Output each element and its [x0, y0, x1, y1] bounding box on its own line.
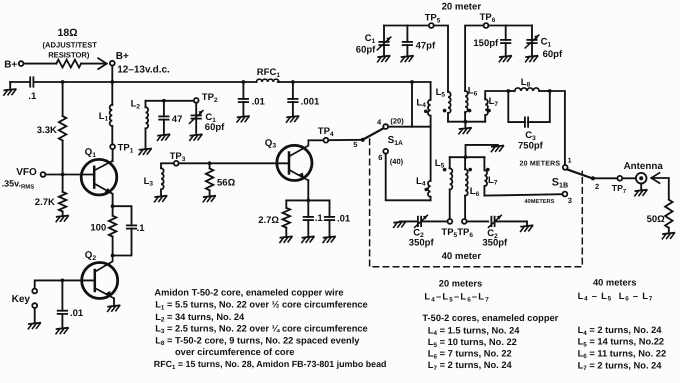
svg-text:150pf: 150pf	[473, 38, 499, 49]
note 40m L6	[578, 348, 667, 360]
note L8 winding	[155, 335, 360, 347]
svg-text:.1: .1	[28, 91, 37, 102]
terminal S1B pin 3	[563, 192, 572, 205]
svg-text:RESISTOR): RESISTOR)	[48, 50, 90, 59]
svg-text:1: 1	[568, 157, 572, 164]
terminal S1A pin 6	[378, 149, 403, 166]
ground under 56Ω	[203, 196, 215, 202]
wire TP3 to Q3 base	[179, 162, 289, 164]
test point TP7	[612, 176, 627, 195]
resistor 2.7K	[35, 175, 67, 216]
wire bus down to pin-4 line	[411, 82, 413, 127]
junction bus / 3.3K	[61, 80, 65, 84]
terminal S1A pin 4	[377, 116, 404, 129]
ground under C1 (20m left)	[378, 56, 390, 62]
wire L2 tank top rail	[146, 100, 194, 102]
ground under 2.7K	[56, 216, 68, 222]
ground under .001 bypass	[287, 116, 299, 122]
svg-text:40 meters: 40 meters	[593, 278, 636, 288]
transistor Q1	[81, 147, 117, 195]
note 40m L4	[578, 325, 663, 337]
note T-50-2 cores line	[422, 313, 558, 323]
svg-text:100: 100	[90, 223, 106, 234]
junction emitter network bottom	[111, 254, 115, 258]
wire TP3 to L3 corner	[161, 163, 174, 168]
svg-text:60pf: 60pf	[543, 49, 563, 60]
note L3 winding	[155, 323, 368, 335]
svg-text:40 meter: 40 meter	[442, 251, 482, 262]
transistor Q3	[265, 138, 312, 181]
svg-text:47pf: 47pf	[416, 40, 436, 51]
svg-text:3.3K: 3.3K	[37, 125, 57, 136]
ground under L2	[139, 149, 151, 155]
capacitor .001 bus bypass	[288, 82, 320, 116]
label Antenna	[624, 161, 664, 172]
terminal Key lower	[32, 303, 37, 323]
note L8 winding cont.	[175, 347, 294, 357]
inductor L5 (40m)	[435, 157, 453, 219]
svg-text:60pf: 60pf	[205, 122, 225, 133]
inductor L6 (20m)	[465, 86, 478, 122]
ground 40m top	[491, 146, 503, 152]
ground under 2.7Ω	[280, 237, 292, 243]
test point TP2	[194, 92, 218, 104]
svg-text:20 meters: 20 meters	[439, 278, 482, 288]
capacitor .1 (Q3 emitter)	[304, 200, 324, 236]
wire Q1 collector to TP1	[112, 149, 114, 161]
svg-text:VFO: VFO	[16, 167, 37, 178]
inductor L4 (40 m link)	[416, 176, 431, 201]
variable capacitor C2 350pf (left)	[400, 215, 448, 248]
svg-text:40METERS: 40METERS	[524, 199, 554, 205]
wire supply bus .1 cap to RFC1	[35, 81, 257, 83]
svg-text:T-50-2 cores, enameled copper: T-50-2 cores, enameled copper	[422, 313, 558, 323]
inductor L3	[144, 168, 164, 196]
test point TP6 (40m)	[457, 219, 473, 239]
terminal VFO input	[2, 167, 46, 190]
ground Q2 emitter	[108, 305, 120, 311]
svg-text:350pf: 350pf	[482, 238, 508, 249]
test point TP5 (40m)	[441, 219, 457, 239]
switch S1B arm	[567, 169, 591, 178]
ground under C1 wavemeter	[190, 134, 202, 140]
label 40 meter	[442, 251, 482, 262]
wire Q2 emitter to ground	[113, 298, 115, 305]
svg-text:(ADJUST/TEST: (ADJUST/TEST	[43, 41, 98, 50]
capacitor .1 parallel (Q1 emitter)	[113, 206, 146, 255]
wire TP5 rail (20m)	[384, 26, 448, 92]
wire S1A pin 6 to 40m L4	[386, 154, 431, 201]
wire 40m output to pin 3	[485, 194, 563, 195]
junction 47pf tank	[162, 99, 166, 103]
svg-text:B+: B+	[116, 51, 129, 62]
svg-text:2.7K: 2.7K	[35, 197, 55, 208]
inductor L7 (20m)	[485, 91, 508, 122]
svg-text:20 meter: 20 meter	[442, 2, 482, 13]
label S1B	[552, 177, 568, 190]
svg-text:47: 47	[172, 114, 183, 125]
wire Q3 emitter down	[307, 180, 309, 200]
svg-text:.01: .01	[252, 96, 266, 107]
test point TP1	[110, 143, 134, 155]
svg-text:Antenna: Antenna	[624, 161, 664, 172]
svg-text:12–13v.d.c.: 12–13v.d.c.	[117, 64, 170, 75]
junction S1A pole (5)	[353, 138, 365, 149]
wire supply bus RFC1 to 20m L4	[278, 81, 431, 83]
junction S1B pole (2)	[591, 176, 599, 191]
test point TP6 (20m)	[480, 12, 496, 28]
inductor RFC1	[257, 67, 281, 82]
junction bus / .001 bypass	[291, 80, 295, 84]
svg-text:.1: .1	[137, 223, 146, 234]
svg-text:56Ω: 56Ω	[217, 178, 236, 189]
svg-text:2.7Ω: 2.7Ω	[258, 215, 279, 226]
capacitor C3 750pf	[508, 91, 550, 152]
ground at bus left end	[4, 82, 16, 95]
svg-text:750pf: 750pf	[518, 141, 544, 152]
svg-text:(20): (20)	[390, 116, 404, 125]
svg-text:18Ω: 18Ω	[58, 27, 78, 39]
junction bus / pin-4 drop	[410, 80, 414, 84]
capacitor .1 series in B+ bus	[28, 77, 37, 102]
svg-text:2: 2	[595, 182, 599, 191]
label 40METERS	[524, 199, 554, 205]
junction L8 left	[506, 89, 510, 93]
switch S1A arm	[364, 128, 403, 147]
inductor L2	[131, 99, 149, 149]
wire B+ node down to supply bus	[111, 66, 113, 82]
junction Q3 emitter network	[306, 199, 310, 203]
junction bus / .01 bypass	[242, 80, 246, 84]
wire VFO to Q1 base	[45, 174, 94, 176]
note 20m coil set	[424, 292, 490, 304]
wire resistor to B+ node with arrowhead	[81, 58, 107, 69]
junction 56-ohm	[208, 161, 212, 165]
resistor 56Ω	[206, 163, 236, 195]
resistor 3.3K	[37, 82, 67, 175]
junction transformer ground (20m)	[459, 120, 471, 134]
svg-text:.1: .1	[315, 213, 324, 224]
capacitor 47pf (20m)	[403, 26, 436, 56]
note RFC1 winding	[154, 359, 387, 371]
svg-text:3: 3	[568, 196, 572, 205]
capacitor .01 (Q3 emitter)	[325, 200, 351, 236]
wire B+ input to 18-ohm resistor	[24, 63, 57, 65]
svg-text:Key: Key	[12, 294, 31, 305]
svg-text:Amidon T-50-2 core, enameled c: Amidon T-50-2 core, enameled copper wire	[154, 287, 343, 297]
svg-text:.01: .01	[337, 213, 351, 224]
note 20m L6	[428, 349, 512, 361]
svg-text:350pf: 350pf	[409, 238, 435, 249]
wire Q3 emitter network rail	[286, 199, 329, 201]
variable capacitor C1 60pf (20m right)	[525, 26, 563, 60]
inductor L6 (40m)	[465, 157, 480, 219]
note 20m L7	[428, 360, 513, 372]
transistor Q2	[82, 250, 118, 299]
terminal B+ 12-13 v.d.c. node	[110, 51, 170, 75]
wire pin-4 line down to 40m L4	[430, 127, 432, 181]
antenna feed arrow	[651, 173, 669, 200]
inductor L8	[508, 77, 550, 91]
ground antenna jack	[635, 190, 647, 196]
wire Key node to Q2 base	[35, 280, 95, 288]
ground under Key	[28, 323, 40, 329]
junction L8 right	[548, 89, 552, 93]
note 40m L5	[578, 337, 664, 349]
ground 40m bottom left	[394, 221, 406, 227]
terminal Key upper	[32, 289, 37, 294]
test point TP3	[170, 151, 186, 166]
note L1 winding	[155, 300, 368, 312]
variable capacitor C2 350pf (right)	[467, 215, 527, 248]
svg-text:20 METERS: 20 METERS	[520, 160, 561, 167]
inductor L5 (20m)	[436, 87, 451, 122]
ground 40m bottom right	[521, 221, 533, 231]
wire bus left stub	[10, 81, 29, 83]
note 40m L7	[578, 360, 663, 372]
wire transformer bottom rail (20m)	[448, 121, 485, 123]
inductor L1	[99, 82, 113, 144]
ground under L3	[155, 196, 167, 202]
terminal S1B pin 1	[563, 157, 572, 169]
svg-text:over circumference of core: over circumference of core	[175, 347, 294, 357]
wire 40m rail to top ground	[466, 145, 498, 157]
svg-text:.01: .01	[70, 308, 84, 319]
ground under key .01	[56, 328, 68, 334]
dashed enclosure 40 meter section	[370, 139, 583, 267]
ground under C1 (20m right)	[526, 56, 538, 62]
svg-text:5: 5	[353, 140, 357, 149]
resistor 100 (Q1 emitter)	[90, 206, 116, 255]
wire S1A pin 4 line	[388, 126, 431, 128]
note 20m L5	[428, 337, 517, 349]
ground under 50Ω	[662, 233, 674, 239]
inductor L4 (20 m link)	[416, 82, 430, 127]
test point TP4	[318, 126, 334, 142]
test point TP5 (20m)	[425, 13, 441, 28]
variable capacitor C1 60pf (20m left)	[356, 26, 391, 56]
wire L8 to S1B pin 1	[550, 91, 565, 165]
junction VFO / divider	[61, 173, 65, 177]
svg-text:60pf: 60pf	[356, 45, 376, 56]
svg-text:B+: B+	[4, 59, 17, 70]
wire Q3 collector to TP4	[308, 139, 323, 141]
terminal B+ input	[4, 59, 23, 70]
antenna jack	[636, 173, 647, 190]
label 20 METERS	[520, 160, 561, 167]
ground under .1 (Q3)	[302, 237, 314, 243]
note 20 meters heading	[439, 278, 482, 288]
note 20m L4	[428, 325, 520, 337]
variable capacitor C1 60pf (wavemeter)	[189, 103, 225, 135]
capacitor 150pf (20m)	[473, 26, 510, 56]
wire Q1 emitter down	[112, 194, 114, 206]
svg-text:50Ω: 50Ω	[647, 214, 666, 225]
capacitor .01 (key filter)	[58, 280, 84, 327]
junction 40m ground rail	[464, 155, 468, 159]
resistor 50Ω	[647, 200, 673, 233]
ground under .01 (Q3)	[323, 237, 335, 243]
ground under 47pf	[401, 56, 413, 62]
wire 40m ground rail	[450, 156, 485, 158]
note 40m coil set	[578, 291, 653, 303]
label Key	[12, 294, 31, 305]
label 20 meter	[442, 2, 482, 13]
wire S1B pole to antenna	[593, 177, 636, 179]
ground under .01 bypass	[237, 116, 249, 122]
resistor 2.7Ω (Q3 emitter)	[258, 200, 290, 236]
junction emitter network top	[111, 204, 115, 208]
resistor R1 18Ω (adjust/test)	[43, 27, 98, 68]
svg-text:6: 6	[378, 153, 382, 162]
junction bus / B+ node	[110, 80, 114, 84]
wire TP4 to S1A pole	[328, 139, 362, 141]
junction key / .01	[61, 279, 65, 283]
svg-text:(40): (40)	[390, 157, 404, 166]
note 40 meters heading	[593, 278, 636, 288]
inductor L7 (40m)	[484, 157, 497, 195]
svg-text:.001: .001	[301, 96, 320, 107]
note L2 winding	[155, 312, 245, 324]
ground under 47	[158, 134, 170, 140]
note Amidon core line	[154, 287, 343, 297]
capacitor 47 (tank)	[159, 101, 182, 135]
ground under 150pf	[499, 56, 511, 62]
capacitor .01 bus bypass	[239, 82, 266, 116]
wire TP6 rail (20m)	[465, 26, 532, 92]
